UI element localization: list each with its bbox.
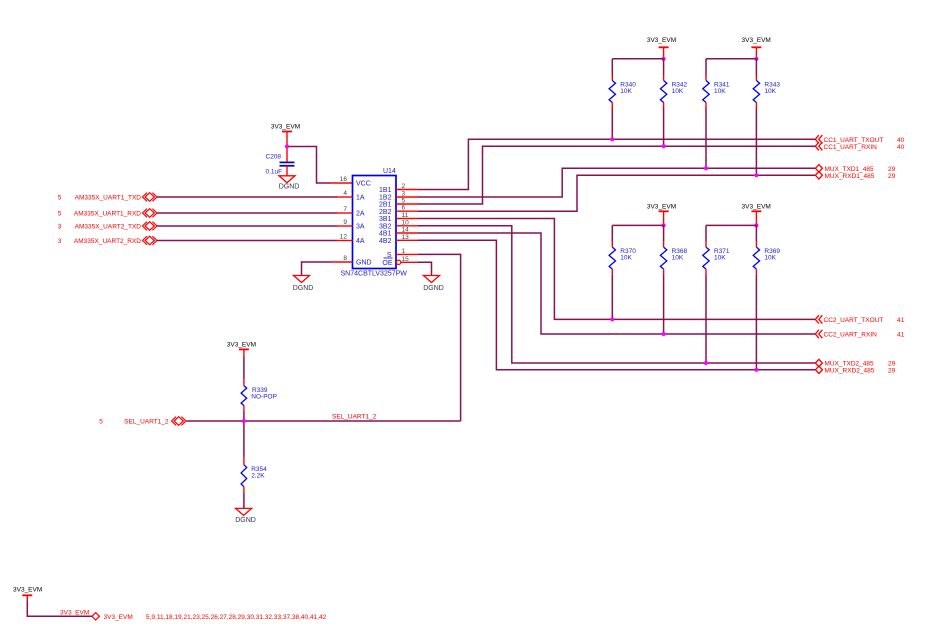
svg-text:16: 16 (340, 176, 348, 183)
off-page connector MUX_RXD1_485 (page 29) (815, 172, 895, 180)
U14 pin 13 (4B2) (379, 234, 418, 245)
off-page connector CC2_UART_TXOUT (page 41) (815, 315, 904, 324)
resistor R370 10K (609, 225, 636, 319)
junction R371 / MUX_TXD2_485 (704, 361, 708, 365)
junction R370 / CC2_UART_TXOUT (610, 317, 614, 321)
wire AM335X_UART1_TXD to U14 (157, 196, 337, 198)
resistor R343 10K (753, 59, 780, 176)
ground DGND (U14 pin 15 OE) (423, 276, 444, 292)
power symbol 3V3_EVM (above R339) (227, 342, 256, 357)
resistor R368 10K (660, 225, 687, 334)
off-page connector CC1_UART_RXIN (page 40) (815, 142, 904, 151)
svg-text:C208: C208 (266, 154, 282, 161)
svg-text:VCC: VCC (356, 181, 371, 188)
svg-text:10K: 10K (672, 255, 684, 262)
svg-text:8: 8 (343, 255, 347, 262)
svg-text:2B1: 2B1 (379, 202, 392, 209)
wire 2B2 to MUX_RXD1_485 (418, 175, 815, 211)
svg-text:4B1: 4B1 (379, 231, 392, 238)
wire 1B1 to CC1_UART_TXOUT (418, 139, 815, 189)
wire 3V3_EVM to R340 (612, 58, 663, 60)
svg-text:SEL_UART1_2: SEL_UART1_2 (332, 414, 377, 421)
U14 pin 9 (3A) (337, 219, 365, 231)
net label 3V3_EVM (60, 609, 89, 616)
U14 pin 12 (4A) (337, 234, 365, 246)
svg-text:MUX_RXD2_485: MUX_RXD2_485 (825, 367, 875, 374)
svg-text:3V3_EVM: 3V3_EVM (742, 203, 771, 210)
junction SEL_UART1_2 node (242, 419, 246, 423)
svg-text:SEL_UART1_2: SEL_UART1_2 (124, 419, 169, 426)
off-page connector AM335X_UART1_TXD (page 5) (58, 193, 157, 202)
resistor R369 10K (753, 225, 780, 369)
ground DGND (below R354) (235, 508, 256, 523)
svg-text:3A: 3A (356, 224, 365, 231)
svg-text:DGND: DGND (279, 183, 300, 190)
resistor R341 10K (703, 59, 730, 169)
svg-text:5,9,11,18,19,21,23,25,26,27,28: 5,9,11,18,19,21,23,25,26,27,28,29,30,31,… (146, 614, 327, 621)
wire AM335X_UART1_RXD to U14 (157, 212, 337, 214)
svg-text:41: 41 (897, 332, 905, 339)
svg-text:4B2: 4B2 (379, 238, 392, 245)
junction 3V3_EVM / R370 / R368 (662, 223, 666, 227)
off-page connector MUX_TXD2_485 (page 29) (815, 359, 895, 367)
U14 pin 2 (1B1) (379, 183, 418, 194)
svg-text:U14: U14 (383, 168, 396, 175)
wire 4B1 to CC2_UART_RXIN (418, 233, 815, 334)
wire U14 S pin 1 to SEL_UART1_2 (418, 254, 461, 421)
wire 3V3_EVM to U14 pin 16 VCC (287, 147, 353, 184)
off-page connector AM335X_UART2_TXD (page 3) (58, 222, 157, 231)
svg-text:3B1: 3B1 (379, 216, 392, 223)
svg-text:OE: OE (382, 260, 392, 267)
resistor R371 10K (703, 225, 730, 363)
off-page connector label 3V3_EVM (104, 614, 133, 621)
svg-text:40: 40 (897, 144, 905, 151)
junction R342 / CC1_UART_RXIN (662, 144, 666, 148)
svg-text:10K: 10K (764, 255, 776, 262)
svg-text:CC2_UART_TXOUT: CC2_UART_TXOUT (824, 317, 884, 324)
junction R368 / CC2_UART_RXIN (662, 332, 666, 336)
svg-text:DGND: DGND (423, 285, 444, 292)
U14 pin 7 (2A) (337, 206, 365, 218)
svg-text:5: 5 (58, 195, 62, 202)
ground DGND (below C208) (279, 176, 300, 191)
svg-text:10K: 10K (672, 88, 684, 95)
wire 4B2 to MUX_RXD2_485 (418, 240, 815, 369)
U14 pin 16 (VCC) (340, 176, 371, 188)
resistor R342 10K (660, 59, 687, 146)
svg-text:29: 29 (888, 173, 896, 180)
wire 3V3_EVM to R371 (706, 224, 756, 226)
junction 3V3_EVM / R341 / R343 (754, 57, 758, 61)
resistor R340 10K (609, 59, 636, 140)
power symbol 3V3_EVM (above R369) (742, 203, 771, 225)
wire 3V3_EVM to R370 (612, 224, 663, 226)
wire 3B2 to MUX_TXD2_485 (418, 226, 815, 363)
svg-text:29: 29 (888, 367, 896, 374)
off-page connector CC2_UART_RXIN (page 41) (815, 330, 904, 339)
svg-text:3B2: 3B2 (379, 224, 392, 231)
ground DGND (U14 pin 8) (293, 276, 314, 292)
svg-text:NO-POP: NO-POP (251, 394, 277, 401)
wire SEL_UART1_2 (junction to U14 S) (244, 420, 461, 422)
svg-text:10K: 10K (620, 88, 632, 95)
svg-text:3V3_EVM: 3V3_EVM (104, 614, 133, 621)
svg-text:3: 3 (58, 224, 62, 231)
svg-text:4A: 4A (356, 238, 365, 245)
svg-text:5: 5 (99, 419, 103, 426)
resistor R339 NO-POP (241, 356, 277, 421)
svg-text:3V3_EVM: 3V3_EVM (13, 586, 42, 593)
svg-text:1B1: 1B1 (379, 187, 392, 194)
off-page connector MUX_RXD2_485 (page 29) (815, 366, 895, 374)
power symbol 3V3_EVM (bottom-left) (13, 586, 42, 601)
off-page connector CC1_UART_TXOUT (page 40) (815, 135, 904, 144)
svg-text:10K: 10K (620, 255, 632, 262)
svg-text:10K: 10K (714, 88, 726, 95)
off-page connector AM335X_UART1_RXD (page 5) (58, 209, 157, 218)
junction 3V3_EVM / R340 / R342 (662, 57, 666, 61)
wire 3V3_EVM net (bottom-left) (27, 601, 92, 616)
junction R343 / MUX_RXD1_485 (754, 173, 758, 177)
U14 pin 4 (1A) (337, 190, 365, 202)
U14 pin 10 (3B2) (379, 219, 418, 230)
wire 3V3_EVM to R341 (706, 58, 756, 60)
svg-text:AM335X_UART2_RXD: AM335X_UART2_RXD (74, 238, 141, 245)
U14 pin 1 (S) (387, 248, 418, 259)
svg-text:3V3_EVM: 3V3_EVM (60, 609, 89, 616)
power symbol 3V3_EVM (above R368) (647, 203, 676, 225)
svg-text:5: 5 (58, 211, 62, 218)
svg-text:41: 41 (897, 317, 905, 324)
svg-text:3V3_EVM: 3V3_EVM (647, 37, 676, 44)
U14 pin 11 (3B1) (379, 212, 418, 223)
svg-text:7: 7 (343, 206, 347, 213)
svg-text:GND: GND (356, 260, 372, 267)
svg-text:3V3_EVM: 3V3_EVM (271, 124, 300, 131)
svg-text:10K: 10K (714, 255, 726, 262)
off-page connector 3V3_EVM (diamond) (92, 613, 99, 620)
svg-text:AM335X_UART1_RXD: AM335X_UART1_RXD (74, 211, 141, 218)
svg-text:AM335X_UART1_TXD: AM335X_UART1_TXD (75, 195, 142, 202)
power symbol 3V3_EVM (above R343) (742, 37, 771, 59)
svg-text:2.2K: 2.2K (251, 473, 265, 480)
svg-text:3V3_EVM: 3V3_EVM (227, 342, 256, 349)
svg-text:0.1uF: 0.1uF (266, 169, 283, 176)
junction at C208 / VCC node (285, 144, 289, 148)
svg-text:1A: 1A (356, 195, 365, 202)
svg-text:4: 4 (343, 190, 347, 197)
off-page connector SEL_UART1_2 (page 5) (99, 417, 186, 426)
svg-text:CC1_UART_RXIN: CC1_UART_RXIN (824, 144, 878, 151)
resistor R354 2.2K (241, 421, 267, 508)
off-page connector AM335X_UART2_RXD (page 3) (58, 236, 157, 245)
U14 pin 14 (4B1) (379, 227, 418, 238)
off-page connector MUX_TXD1_485 (page 29) (815, 165, 895, 173)
U14 pin 15 (OE, active low, inversion bubble) (382, 256, 418, 267)
U14 pin 8 (GND) (343, 255, 371, 267)
junction 3V3_EVM / R371 / R369 (754, 223, 758, 227)
svg-text:CC2_UART_RXIN: CC2_UART_RXIN (824, 332, 878, 339)
U14 pin 5 (2B1) (379, 198, 418, 209)
wire AM335X_UART2_RXD to U14 (157, 240, 337, 242)
svg-text:3V3_EVM: 3V3_EVM (742, 37, 771, 44)
svg-text:DGND: DGND (293, 285, 314, 292)
svg-text:1B2: 1B2 (379, 195, 392, 202)
svg-text:MUX_TXD1_485: MUX_TXD1_485 (825, 166, 875, 173)
wire U14 OE pin 15 to ground (418, 262, 432, 275)
svg-text:29: 29 (888, 166, 896, 173)
junction R341 / MUX_TXD1_485 (704, 166, 708, 170)
wire 2B1 to CC1_UART_RXIN (418, 146, 815, 204)
power symbol 3V3_EVM (above R342) (647, 37, 676, 59)
svg-text:MUX_RXD1_485: MUX_RXD1_485 (825, 173, 875, 180)
svg-text:DGND: DGND (235, 517, 256, 524)
junction R369 / MUX_RXD2_485 (754, 368, 758, 372)
svg-text:9: 9 (343, 219, 347, 226)
svg-text:3: 3 (58, 238, 62, 245)
svg-text:SN74CBTLV3257PW: SN74CBTLV3257PW (341, 271, 408, 278)
svg-text:2A: 2A (356, 211, 365, 218)
U14 pin 3 (1B2) (379, 191, 418, 202)
power symbol 3V3_EVM (above C208) (271, 124, 300, 147)
net label SEL_UART1_2 (332, 414, 377, 421)
svg-text:12: 12 (340, 234, 348, 241)
wire SEL_UART1_2 (connector to junction) (187, 420, 244, 422)
capacitor C208 0.1uF (266, 147, 295, 176)
svg-text:2B2: 2B2 (379, 209, 392, 216)
U14 pin 6 (2B2) (379, 205, 418, 216)
svg-text:3V3_EVM: 3V3_EVM (647, 203, 676, 210)
page reference list for 3V3_EVM (146, 614, 327, 621)
wire U14 GND pin 8 to ground (302, 262, 353, 276)
svg-text:AM335X_UART2_TXD: AM335X_UART2_TXD (75, 224, 142, 231)
junction R340 / CC1_UART_TXOUT (610, 137, 614, 141)
wire 3B1 to CC2_UART_TXOUT (418, 219, 815, 320)
op-amp-style IC U14 SN74CBTLV3257PW body (341, 168, 408, 277)
wire AM335X_UART2_TXD to U14 (157, 225, 337, 227)
svg-text:10K: 10K (764, 88, 776, 95)
wire 1B2 to MUX_TXD1_485 (418, 168, 815, 197)
